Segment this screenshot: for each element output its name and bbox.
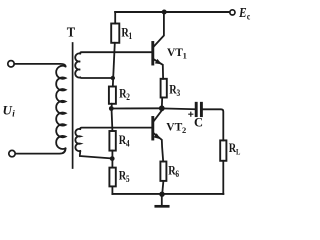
svg-text:R6: R6 <box>168 165 179 180</box>
wire: VT2 base wire + lower secondary top <box>80 128 152 129</box>
label T (transformer) <box>67 24 76 40</box>
label Ec <box>238 5 250 21</box>
svg-text:RL: RL <box>229 142 241 157</box>
node: lower secondary tap at R4/R5 junction <box>110 156 115 161</box>
svg-text:R2: R2 <box>119 88 130 103</box>
wire: midpoint to capacitor <box>162 107 195 110</box>
terminal: input lower <box>9 150 15 156</box>
node: VT1 collector junction on top rail <box>162 10 167 15</box>
wire: lower input lead <box>15 149 65 154</box>
wire: upper input lead <box>14 64 65 67</box>
resistor R6 <box>160 162 179 181</box>
svg-text:VT1: VT1 <box>167 47 187 61</box>
wire: lower secondary bottom lead to R4/R5 junction <box>79 151 112 158</box>
resistor R2 <box>109 87 130 104</box>
wire: R2 bottom stub <box>110 104 113 109</box>
svg-text:R1: R1 <box>121 26 132 41</box>
node: ground junction on bottom rail <box>159 192 164 197</box>
wire: upper secondary bottom lead to bias line <box>80 77 113 80</box>
wire: R5 bottom to ground rail <box>111 186 113 194</box>
resistor R4 <box>109 131 129 151</box>
wire: R4 bottom to R5 top <box>111 151 113 168</box>
svg-text:T: T <box>67 24 76 40</box>
svg-text:R5: R5 <box>119 170 130 185</box>
wire: capacitor to RL <box>203 109 223 140</box>
wire: bootstrap wire R2 bottom to midpoint <box>111 107 162 109</box>
svg-text:R3: R3 <box>169 84 180 99</box>
transistor VT1 <box>153 13 187 79</box>
capacitor C <box>189 103 203 129</box>
terminal: input upper <box>8 61 14 67</box>
terminal Ec <box>230 10 235 15</box>
svg-text:R4: R4 <box>119 134 130 149</box>
resistor R3 <box>161 79 181 98</box>
transformer primary winding <box>56 66 65 149</box>
svg-text:Ui: Ui <box>3 103 16 119</box>
ground symbol <box>156 194 168 206</box>
transformer upper secondary winding <box>75 53 80 77</box>
wire: R1 bottom to R2 top (crosses VT1 base wire, no connection) <box>113 43 115 87</box>
wire: bottom ground rail <box>112 193 223 195</box>
svg-text:Ec: Ec <box>238 5 250 21</box>
resistor R5 <box>109 168 129 187</box>
svg-text:VT2: VT2 <box>166 122 186 136</box>
wire: RL bottom to ground rail <box>222 161 224 194</box>
wire: top supply rail <box>115 11 229 13</box>
node: midpoint (VT1 emitter / VT2 collector / C) <box>159 105 165 111</box>
resistor R1 <box>111 12 132 43</box>
wire: bias line down to R4 (crosses VT2 base wire, no connection) <box>111 111 114 132</box>
wire: R3 bottom to midpoint node <box>161 98 163 109</box>
node: R2 bottom / bootstrap junction <box>109 106 114 111</box>
svg-text:C: C <box>194 116 203 130</box>
transformer lower secondary winding <box>75 129 80 151</box>
wire: VT1 base wire + upper secondary top <box>80 52 152 53</box>
transistor VT2 <box>153 110 186 161</box>
node: upper secondary bottom tap on bias line <box>111 76 115 80</box>
resistor RL <box>220 140 240 160</box>
wire: R6 bottom to ground rail <box>162 181 163 194</box>
transformer core <box>72 43 74 168</box>
